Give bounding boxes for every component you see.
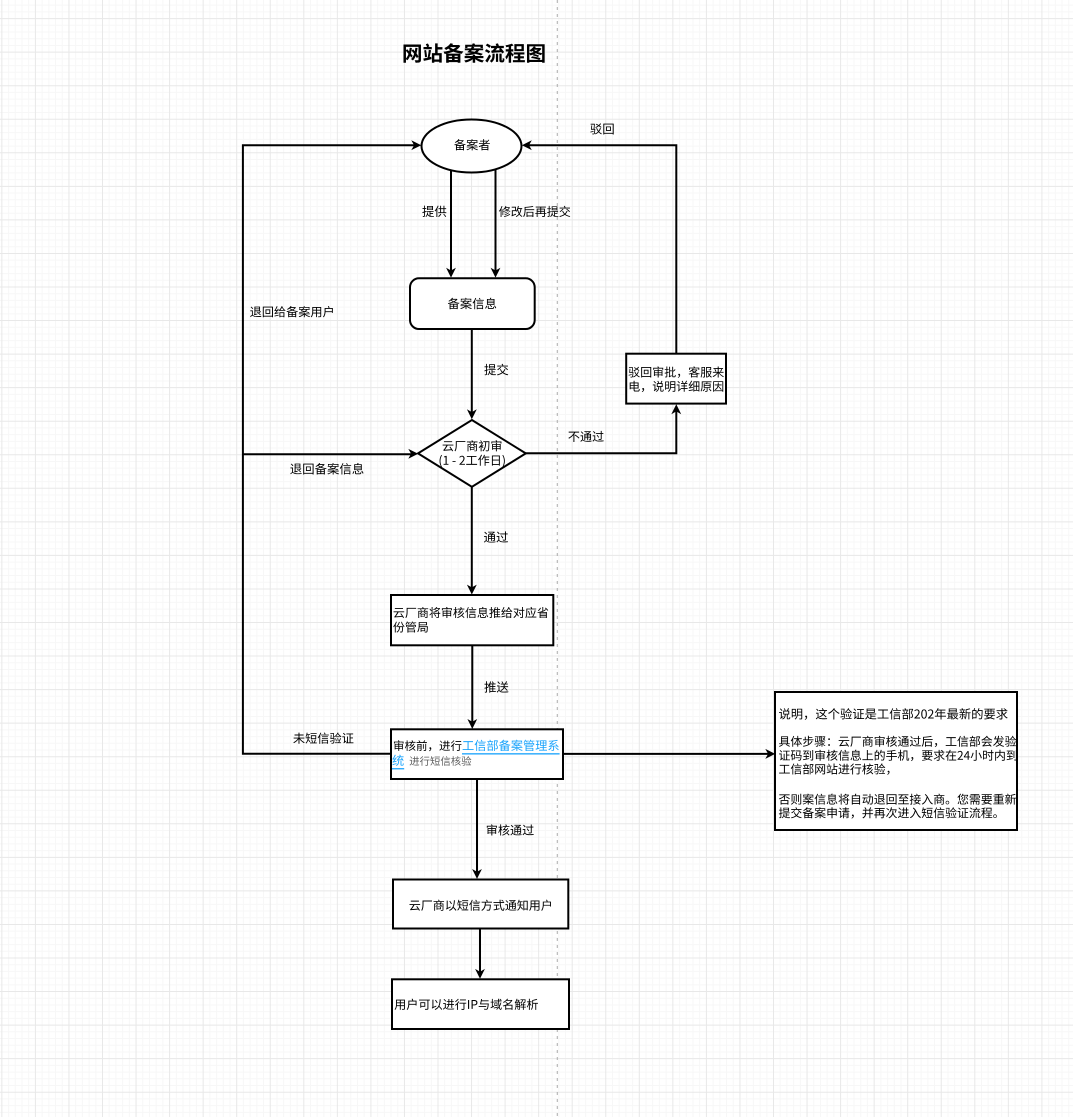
note box line6: [779, 807, 997, 818]
note box line4: [779, 763, 889, 774]
label 备案者: [454, 139, 490, 150]
node: ellipse 备案者: [422, 120, 522, 173]
node: note box 说明: [775, 692, 1017, 830]
node: rect 云厂商将审核信息推给对应省份管局: [391, 595, 553, 645]
edge label 退回给备案用户: [250, 306, 333, 317]
node: rect 驳回审批: [626, 354, 726, 404]
page divider dashed line: [556, 0, 558, 1117]
edge label 不通过: [568, 431, 603, 442]
node: rect 用户可以进行IP与域名解析: [392, 979, 569, 1029]
diamond label line2 (1 - 2工作日): [440, 455, 505, 467]
edge: ellipse to info box (修改后再提交): [495, 170, 497, 272]
title 网站备案流程图: [403, 43, 544, 63]
edge label 提供: [422, 206, 446, 217]
edge: left loop branch into diamond (退回备案信息): [243, 453, 412, 455]
edge label 修改后再提交: [499, 206, 570, 217]
reject box line1: [629, 366, 724, 377]
note box line2: [779, 736, 1016, 747]
edge label 审核通过: [487, 824, 534, 835]
edge: notify box to resolve box: [479, 929, 481, 973]
edge label 退回备案信息: [290, 463, 363, 475]
edge: push box to sms-check box (推送): [471, 645, 473, 722]
note box line3: [779, 750, 1017, 761]
reject box line2: [630, 381, 724, 392]
node: rect 云厂商以短信方式通知用户: [393, 880, 568, 929]
notify box label: [409, 900, 550, 911]
edge label 通过: [484, 531, 508, 542]
edge: info box to diamond (提交): [471, 329, 473, 413]
sms-check box line2 blue link 统: [392, 755, 403, 766]
edge: sms-check box left loop up to ellipse (未短信验证/退回给备案用户): [243, 145, 415, 754]
edge: reject box to ellipse (驳回): [528, 145, 676, 354]
node: diamond 云厂商初审: [418, 420, 526, 487]
edge: diamond right to reject box (不通过): [526, 410, 677, 453]
push box line2: [393, 621, 428, 632]
edge label 提交: [484, 364, 508, 376]
node: rounded rect 备案信息: [410, 278, 535, 329]
label 备案信息: [448, 298, 496, 310]
note box line5: [779, 794, 1016, 805]
edge: sms-check box to notify box (审核通过): [476, 779, 478, 873]
sms-check box line1 black part: [394, 740, 462, 751]
sms-check box line1 blue link 工信部备案管理系: [463, 740, 559, 751]
resolve box label: [395, 999, 538, 1010]
edge label 驳回: [590, 123, 613, 134]
edge: diamond to push box (通过): [471, 487, 473, 589]
node: rect 审核前短信核验: [391, 729, 563, 779]
diamond label line1 云厂商初审: [443, 440, 502, 451]
note box line1: [779, 708, 1008, 720]
sms-check box line2 gray 进行短信核验: [410, 756, 472, 766]
edge: ellipse to info box (提供): [450, 171, 452, 272]
edge label 推送: [484, 681, 508, 692]
edge label 未短信验证: [293, 732, 353, 743]
edge: sms-check box to note box: [563, 753, 769, 755]
push box line1: [394, 607, 549, 618]
